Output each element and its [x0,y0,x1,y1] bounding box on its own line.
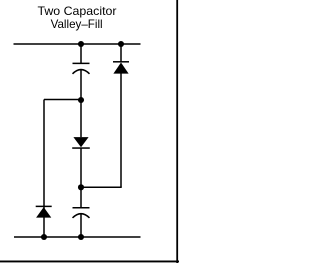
capacitor C1 curved plate [73,70,90,74]
bottom page border [0,261,179,263]
svg-text:Two Capacitor: Two Capacitor [38,4,117,18]
wire middle node to diode D2 [80,100,82,137]
wire below C1 to node [80,70,82,100]
wire D1 anode down right branch [120,74,122,188]
diode D1 triangle (pointing up) [113,63,128,74]
junction dot top rail at C1 [78,41,84,47]
wire top rail to diode D1 [120,44,122,62]
wire lower node to capacitor C2 [80,187,82,207]
wire node to left branch [44,99,81,101]
wire left branch vertical lower [43,207,45,237]
capacitor C2 curved plate [73,214,90,218]
junction dot bottom rail left [41,234,47,240]
junction dot node below C1 [78,97,84,103]
svg-text:Valley–Fill: Valley–Fill [51,17,103,31]
bottom rail wire [14,236,141,238]
wire top of capacitor C1 [80,44,82,63]
capacitor C1 top plate [73,62,90,64]
wire right branch to lower node [81,186,122,188]
top rail wire [14,43,141,45]
capacitor C2 top plate [73,207,90,209]
junction dot node above C2 [78,184,84,190]
wire below C2 to bottom rail [80,214,82,237]
diode D3 cathode bar [36,205,52,207]
wire left branch vertical upper [43,100,45,207]
diode D3 triangle (pointing up) [36,207,51,218]
right page border [176,0,178,263]
diode D2 cathode bar [72,147,90,149]
diode D1 cathode bar [113,61,129,63]
title: Two Capacitor Valley-Fill [38,4,117,31]
junction dot top rail at D1 [118,41,124,47]
wire D2 cathode to lower node [80,148,82,187]
junction dot bottom rail middle [78,234,84,240]
diode D2 triangle (pointing down) [73,137,88,147]
